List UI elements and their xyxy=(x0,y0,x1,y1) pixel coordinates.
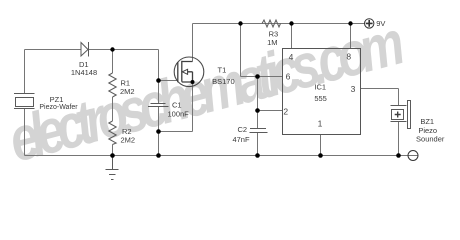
wire PZ1 top xyxy=(24,50,26,94)
svg-text:BS170: BS170 xyxy=(212,77,235,86)
svg-text:IC1: IC1 xyxy=(314,83,326,92)
transistor T1 substrate arrow xyxy=(182,69,187,74)
svg-text:8: 8 xyxy=(346,51,351,61)
node pin 1 / ground rail junction xyxy=(318,153,323,158)
wire pin4 lead xyxy=(291,24,293,49)
svg-text:4: 4 xyxy=(289,52,294,62)
node T1 substrate-source junction xyxy=(191,80,195,84)
resistor R2 xyxy=(109,121,116,145)
wire pin8 lead xyxy=(350,24,352,49)
svg-text:9V: 9V xyxy=(376,19,385,28)
transistor T1 body xyxy=(174,57,204,87)
wire drain riser xyxy=(192,24,194,62)
transistor T1 gate and channel xyxy=(178,61,193,82)
node R3 right / pin 4 junction xyxy=(289,21,293,25)
svg-text:47nF: 47nF xyxy=(232,135,250,144)
diode D1 xyxy=(81,42,89,57)
node C2 / ground rail junction xyxy=(255,153,260,158)
capacitor C1 xyxy=(148,104,169,107)
wire pin1 lead xyxy=(320,134,322,156)
buzzer BZ1 diaphragm xyxy=(408,101,411,129)
wire gate column xyxy=(158,50,160,104)
wire node column 257 xyxy=(257,77,259,129)
wire input row right of diode xyxy=(89,49,159,51)
wire pin6 column xyxy=(240,24,242,77)
wire R1 top lead xyxy=(112,50,114,74)
watermark electroschematics.com xyxy=(2,7,410,175)
svg-text:2: 2 xyxy=(283,107,288,117)
svg-text:3: 3 xyxy=(351,84,356,94)
svg-text:electroschematics.com: electroschematics.com xyxy=(2,7,410,175)
svg-text:T1: T1 xyxy=(218,66,227,75)
node pin 6 junction xyxy=(255,74,260,79)
battery plus terminal +9V xyxy=(365,19,374,28)
capacitor C2 xyxy=(250,129,268,133)
wire C2 bottom lead xyxy=(257,133,259,156)
resistor R3 xyxy=(262,20,281,27)
node D1 cathode / R1 top junction xyxy=(110,47,114,51)
wire top rail xyxy=(193,23,365,25)
wire R2 bottom lead xyxy=(112,145,114,156)
buzzer BZ1 plus xyxy=(395,112,401,118)
svg-text:2M2: 2M2 xyxy=(121,136,136,145)
node BZ1 / ground rail junction xyxy=(396,153,401,158)
piezo wafer PZ1 xyxy=(14,94,35,109)
svg-text:R3: R3 xyxy=(269,29,279,38)
svg-text:2M2: 2M2 xyxy=(120,87,135,96)
buzzer BZ1 box xyxy=(392,110,404,120)
wire R1-R2 link xyxy=(112,97,114,121)
node C1 / ground rail junction xyxy=(156,153,161,158)
wire pin3 lead xyxy=(361,89,399,106)
IC1 box xyxy=(283,49,361,135)
wire source down xyxy=(192,82,194,132)
svg-text:100nF: 100nF xyxy=(168,110,190,119)
svg-text:555: 555 xyxy=(314,94,327,103)
wire BZ1 bottom lead xyxy=(398,122,400,156)
wire bottom rail xyxy=(25,155,409,157)
node R2 / ground rail junction xyxy=(110,153,115,158)
wire pin2 lead xyxy=(258,110,283,112)
resistor R1 xyxy=(109,73,116,97)
wire pin6 lead xyxy=(241,76,283,78)
svg-text:Piezo-Wafer: Piezo-Wafer xyxy=(39,104,78,111)
svg-text:1N4148: 1N4148 xyxy=(71,68,97,77)
svg-text:1: 1 xyxy=(318,119,323,129)
svg-text:6: 6 xyxy=(286,72,291,82)
wire minus terminal line xyxy=(408,155,418,157)
battery minus terminal 0V xyxy=(408,151,418,161)
svg-text:C2: C2 xyxy=(238,125,248,134)
node pin 2 / C2 junction xyxy=(255,108,260,113)
svg-text:Sounder: Sounder xyxy=(416,134,445,143)
ground symbol xyxy=(106,156,119,180)
wire C1 bottom column xyxy=(158,107,160,156)
node gate / C1 top junction xyxy=(156,78,161,83)
svg-text:PZ1: PZ1 xyxy=(50,95,64,104)
wire source to C1 node xyxy=(159,131,193,133)
wire PZ1 bottom xyxy=(24,109,26,156)
buzzer BZ1 plates xyxy=(391,106,407,122)
svg-text:C1: C1 xyxy=(172,100,182,109)
wire gate lead xyxy=(159,80,178,82)
node source / C1 bottom junction xyxy=(156,129,161,134)
node 9V / pin 8 junction xyxy=(348,21,352,25)
wire input row left xyxy=(25,49,82,51)
node drain / R3 left junction xyxy=(238,21,242,25)
svg-text:1M: 1M xyxy=(267,38,277,47)
